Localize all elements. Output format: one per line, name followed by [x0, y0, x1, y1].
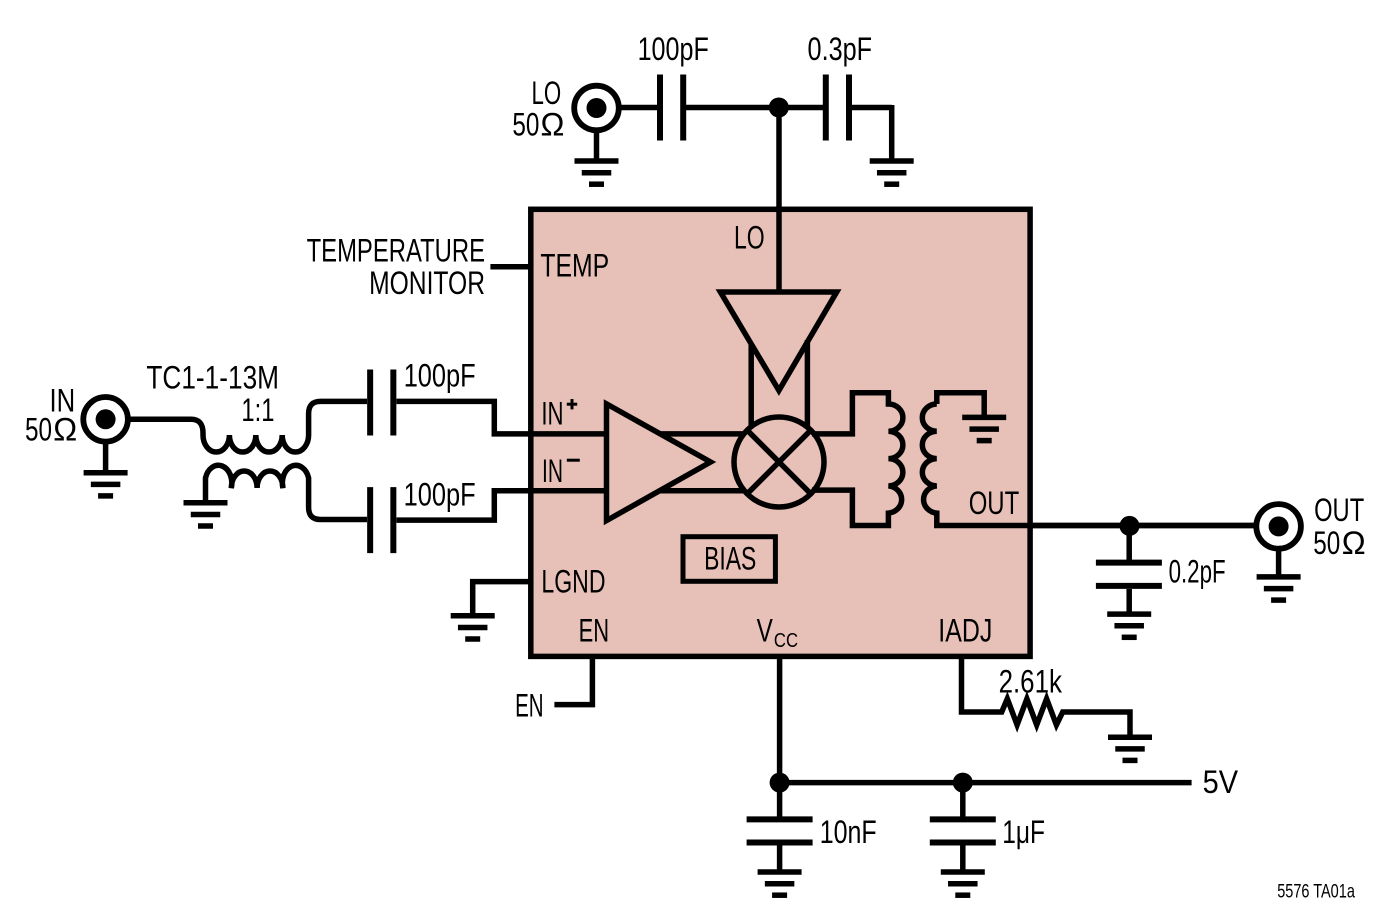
svg-text:50: 50 [25, 411, 52, 447]
svg-text:50: 50 [512, 107, 539, 143]
svg-text:10nF: 10nF [820, 814, 877, 850]
svg-text:0.2pF: 0.2pF [1169, 554, 1226, 590]
svg-text:TC1-1-13M: TC1-1-13M [146, 360, 279, 396]
svg-text:100pF: 100pF [638, 31, 709, 67]
svg-text:MONITOR: MONITOR [369, 265, 485, 301]
svg-text:OUT: OUT [1314, 492, 1364, 528]
svg-text:IN: IN [541, 396, 563, 432]
svg-text:Ω: Ω [1342, 525, 1366, 561]
svg-text:100pF: 100pF [404, 477, 476, 513]
svg-text:LO: LO [734, 219, 765, 255]
svg-text:V: V [757, 612, 774, 648]
svg-text:5576 TA01a: 5576 TA01a [1277, 881, 1355, 903]
svg-text:BIAS: BIAS [704, 541, 756, 577]
svg-text:Ω: Ω [53, 411, 77, 447]
svg-text:CC: CC [774, 630, 798, 652]
svg-text:100pF: 100pF [404, 358, 476, 394]
svg-text:1:1: 1:1 [241, 392, 274, 428]
svg-text:TEMPERATURE: TEMPERATURE [307, 233, 485, 269]
svg-text:50: 50 [1313, 525, 1340, 561]
svg-text:Ω: Ω [541, 107, 565, 143]
svg-text:IN: IN [542, 453, 563, 489]
svg-text:LGND: LGND [541, 564, 605, 600]
svg-text:5V: 5V [1203, 764, 1239, 800]
svg-text:EN: EN [579, 612, 610, 648]
svg-text:IADJ: IADJ [938, 612, 992, 648]
svg-text:2.61k: 2.61k [999, 663, 1063, 699]
svg-text:0.3pF: 0.3pF [808, 31, 873, 67]
svg-text:EN: EN [515, 688, 544, 724]
svg-text:OUT: OUT [969, 485, 1020, 521]
svg-text:1μF: 1μF [1002, 814, 1045, 850]
svg-text:TEMP: TEMP [540, 248, 609, 284]
